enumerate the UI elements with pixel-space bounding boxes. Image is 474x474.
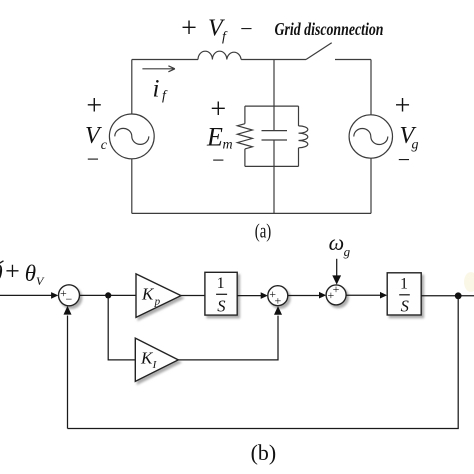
node A bbox=[105, 292, 111, 298]
wire omega_g input arrow bbox=[332, 259, 341, 285]
wire tank top rail bbox=[245, 105, 299, 107]
svg-text:−: − bbox=[66, 292, 73, 306]
voltage source Vc bbox=[109, 114, 154, 159]
wire node A down to KI bbox=[108, 295, 135, 360]
wire feedback up arrow into S1 bbox=[64, 306, 72, 429]
label omega_g bbox=[329, 230, 351, 259]
wire right rail bottom bbox=[370, 158, 372, 213]
wire Kp to integrator1 bbox=[181, 295, 205, 297]
svg-text:K: K bbox=[141, 285, 155, 304]
svg-text:−: − bbox=[87, 147, 99, 172]
wire switch fixed contact bbox=[335, 59, 371, 61]
svg-text:1: 1 bbox=[217, 275, 225, 292]
highlight smudge right edge bbox=[464, 272, 474, 292]
inductor Lf bbox=[198, 51, 241, 59]
voltage source Vg bbox=[349, 115, 392, 158]
summing junction S1 bbox=[59, 285, 80, 306]
svg-text:(b): (b) bbox=[251, 440, 277, 465]
wire center rail top bbox=[273, 60, 275, 131]
svg-text:+: + bbox=[210, 94, 226, 125]
svg-text:Grid disconnection: Grid disconnection bbox=[275, 19, 384, 39]
wire resistor branch top bbox=[244, 106, 246, 124]
resistor R bbox=[237, 124, 252, 149]
label +Vc- bbox=[85, 91, 108, 172]
svg-text:S: S bbox=[401, 297, 409, 316]
wire resistor branch bottom bbox=[244, 149, 246, 167]
svg-text:−: − bbox=[240, 16, 252, 41]
label theta-hat + theta_V bbox=[0, 257, 45, 288]
svg-text:c: c bbox=[101, 138, 108, 153]
svg-text:S: S bbox=[217, 296, 225, 315]
svg-text:g: g bbox=[344, 244, 351, 259]
current arrow if bbox=[142, 66, 175, 104]
summing junction S3 bbox=[326, 282, 346, 305]
integrator block 1/S #1 bbox=[205, 272, 237, 315]
wire tank bottom rail bbox=[245, 165, 299, 167]
wire inductor branch top bbox=[298, 106, 300, 126]
wire left rail bottom bbox=[131, 159, 133, 214]
wire center rail bottom bbox=[273, 140, 275, 213]
wire bottom rail bbox=[132, 212, 371, 214]
wire S2 to S3 arrow bbox=[288, 292, 326, 299]
svg-text:+: + bbox=[86, 91, 102, 122]
svg-text:−: − bbox=[212, 148, 224, 173]
svg-text:θ: θ bbox=[25, 261, 36, 286]
svg-text:g: g bbox=[412, 138, 419, 153]
wire output bbox=[421, 295, 474, 297]
wire S1 to Kp bbox=[80, 294, 137, 296]
wire top left segment bbox=[132, 59, 198, 61]
wire S3 to integrator2 arrow bbox=[346, 292, 387, 299]
integrator block 1/S #2 bbox=[387, 273, 421, 316]
wire integrator1 to S2 arrow bbox=[237, 292, 268, 299]
svg-text:p: p bbox=[154, 296, 161, 308]
wire inductor branch bottom bbox=[298, 148, 300, 167]
label +Vf- bbox=[181, 13, 253, 44]
wire top mid segment bbox=[241, 59, 306, 61]
wire feedback down and across bbox=[68, 296, 459, 429]
svg-text:i: i bbox=[153, 76, 160, 103]
gain Kp bbox=[136, 274, 181, 318]
inductor Lm bbox=[299, 126, 308, 148]
wire input arrow bbox=[0, 292, 58, 299]
svg-text:V: V bbox=[85, 123, 102, 149]
wire right rail top bbox=[370, 60, 372, 115]
label +Em- bbox=[206, 94, 233, 173]
svg-text:+: + bbox=[395, 91, 411, 122]
svg-text:−: − bbox=[398, 147, 410, 172]
svg-text:(a): (a) bbox=[255, 221, 272, 243]
gain KI bbox=[135, 338, 178, 381]
node B output bbox=[455, 292, 462, 299]
svg-text:1: 1 bbox=[400, 275, 408, 292]
svg-text:ω: ω bbox=[329, 230, 345, 255]
wire left rail top bbox=[131, 60, 133, 115]
svg-text:+: + bbox=[275, 294, 282, 308]
svg-text:+: + bbox=[328, 288, 335, 302]
switch blade (grid disconnection) bbox=[306, 43, 332, 60]
svg-text:θ: θ bbox=[0, 261, 3, 286]
svg-text:+: + bbox=[181, 13, 197, 44]
capacitor C bbox=[262, 131, 288, 140]
wire KI to S2 arrow bbox=[178, 306, 282, 360]
summing junction S2 bbox=[268, 286, 288, 308]
svg-text:+: + bbox=[5, 257, 20, 286]
label +Vg- bbox=[395, 91, 419, 172]
